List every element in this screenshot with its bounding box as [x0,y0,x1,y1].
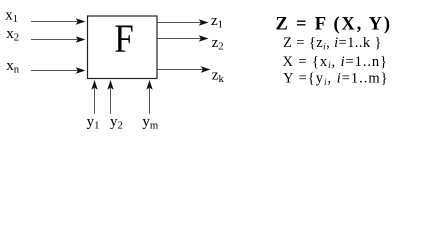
block F box [88,16,158,79]
svg-text:Z = F (X, Y): Z = F (X, Y) [276,15,391,35]
svg-text:Y ={yi, i=1..m}: Y ={yi, i=1..m} [283,70,388,86]
input x2 arrowhead [76,36,86,42]
output z2 wire [158,38,202,40]
input y1 wire [94,88,96,114]
output z2 arrowhead [199,35,209,41]
input ym wire [149,88,151,114]
svg-text:F: F [114,16,134,61]
output z1 arrowhead [199,19,209,25]
input y2 arrowhead [107,80,113,90]
input ym arrowhead [146,80,152,90]
output zk wire [158,69,204,71]
output zk arrowhead [201,66,211,72]
input x1 wire [31,21,79,23]
input x2 wire [31,39,79,41]
input x1 arrowhead [76,18,86,24]
input y2 wire [110,88,112,114]
svg-text:X = {xi, i=1..n}: X = {xi, i=1..n} [283,54,388,70]
input xn wire [31,70,79,72]
input xn arrowhead [76,67,86,73]
svg-text:Z = {zi, i=1..k }: Z = {zi, i=1..k } [283,35,382,51]
input y1 arrowhead [91,80,97,90]
output z1 wire [158,22,202,24]
